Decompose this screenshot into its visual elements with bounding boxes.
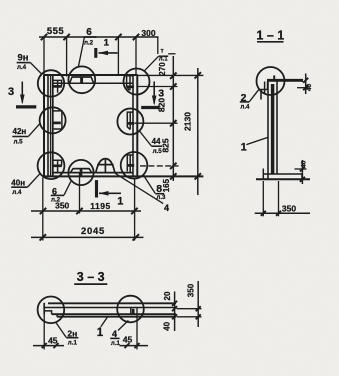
wire dim 350 of section 3-3 [187,281,201,327]
wire right member flange lines [133,75,137,176]
label callout 44/l.5 with leader [140,131,162,154]
wire top dimension line 555 / 300 [39,34,159,40]
label callout 40n/l.4 with leader [11,174,40,196]
wire bottom dimension line 350 / 1195 [31,208,141,214]
label callout 4/l.1 with leader [110,320,128,347]
wire dim 45 left of section 3-3 [33,315,64,350]
label callout 1 of section 3-3 with leader [97,317,108,339]
label callout B/l.2 top with leader [78,27,96,67]
node bell-shaped gusset on bottom member [96,159,115,173]
wire top member flange lines [43,75,137,83]
node detail circle top-right [124,69,150,95]
section marker 1 top (arrow left with bar) [96,48,118,58]
node detail circle bottom-right [121,152,148,179]
node tab middle-right [127,112,134,130]
node tab top-middle trapezoid [70,77,94,83]
label callout B/l.2 bottom with leader [51,181,71,203]
label section title 1-1 [256,28,284,42]
node tab middle-left [53,111,62,129]
label section title 3-3 [74,270,107,284]
wire corner anchor step [261,82,268,100]
node detail circle section 3-3 left [38,297,65,324]
label callout 4 with leader (bottom-right corner) [115,173,169,213]
node detail circle section 1-1 [257,67,285,95]
node detail circle bottom-middle [68,160,93,185]
wire left member flange lines [44,75,53,176]
node detail circle section 3-3 right [117,296,144,323]
section marker 1 bottom [97,180,122,197]
node section 3-3 channel profile [44,303,176,317]
wire bottom overall dimension line 2045 [31,234,144,240]
node tab top-right corner [127,76,134,91]
wire dim 350 of section 1-1 [255,181,310,216]
node tab in right circle of 3-3 [131,308,133,315]
wire right extension lines of section 3-3 [177,309,202,317]
node detail circle middle-right [117,109,143,135]
node detail circle top-middle [68,66,95,93]
section marker 3 right [141,82,159,108]
label callout 9n/l.4 with leader [17,53,42,75]
label callout 2n/l.1 with leader [55,322,78,347]
wire dim 45 right of section 3-3 [120,308,149,350]
wire right extension lines [135,54,204,166]
wire web lines [267,82,269,180]
wire dim 40 bottom right of section 1-1 [295,160,308,184]
node detail circle top-left [38,70,64,96]
wire bottom member flange lines [43,173,203,177]
section marker 3 left (arrow down with bar) [16,82,36,107]
node section 1-1 channel profile [256,75,310,179]
label callout 2/l.4 with leader [240,90,259,111]
wire bottom flange [263,173,302,175]
node tab top-left corner [53,80,62,92]
label callout 42n/l.5 with leader [12,124,40,146]
wire top extension lines [44,37,158,77]
wire right dimension line column [170,56,176,181]
node tab bottom-middle trapezoid [70,169,91,177]
wire weld tick above flange [273,75,275,79]
wire dim 20/40 of section 3-3 [163,291,178,331]
node detail circle middle-left [40,107,66,133]
wire dim 40 top right of section 1-1 [297,74,313,95]
node tab bottom-left [53,160,62,172]
label callout 8/l.3 with leader [144,175,166,201]
node detail circle bottom-left [38,152,65,179]
label callout t/l.1 top-right with leader [144,49,168,71]
wire bottom extension lines [43,173,135,241]
wire overall dimension line 2130 [195,68,201,195]
label callout 1 with leader [241,137,268,153]
node tab bottom-right [127,155,134,172]
wire top flange [267,79,302,82]
wire web plate dark fill [271,84,274,174]
